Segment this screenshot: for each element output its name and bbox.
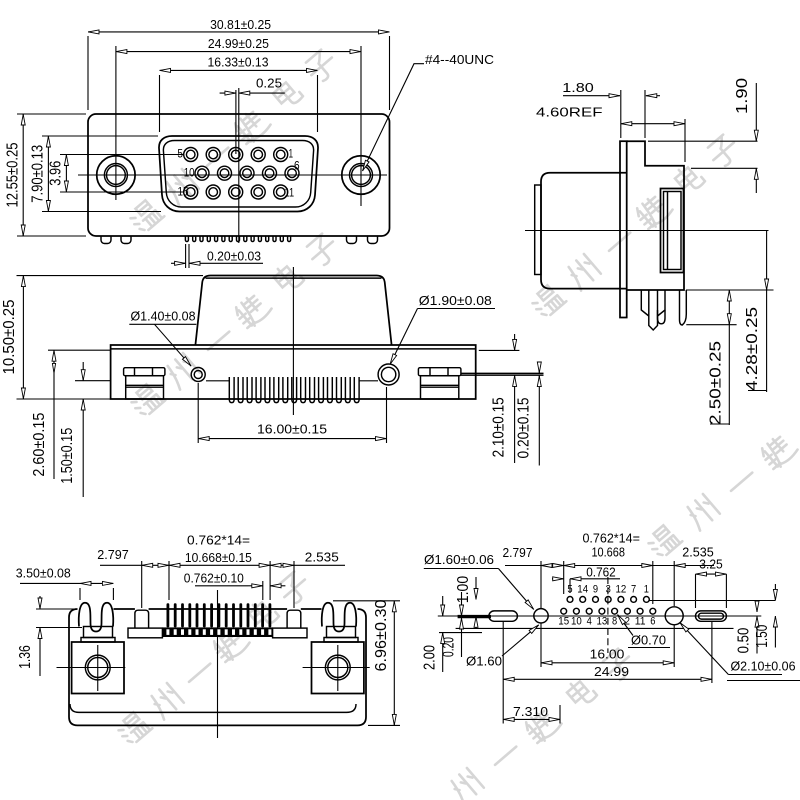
dim 1.36 (36, 608, 77, 610)
connector body outline (front) (88, 114, 390, 236)
svg-text:16.00±0.15: 16.00±0.15 (257, 422, 327, 437)
svg-text:1.50: 1.50 (754, 625, 771, 648)
mini dim 1.00 (475, 577, 477, 600)
svg-text:6.96±0.30: 6.96±0.30 (373, 599, 390, 671)
svg-text:#4--40UNC: #4--40UNC (425, 52, 494, 67)
watermark run B mid-left (128, 232, 341, 419)
svg-text:10.50±0.25: 10.50±0.25 (1, 299, 18, 374)
right solder pin (side) (680, 290, 687, 325)
svg-text:5: 5 (177, 147, 183, 161)
mini dim 0.50 right (756, 601, 758, 612)
left fork base (84, 627, 113, 638)
middle view pin comb (229, 377, 359, 403)
svg-text:4: 4 (587, 616, 592, 628)
dim 1.50±0.15 (82, 362, 84, 381)
right fork (board lock) (322, 603, 356, 632)
watermark run A top-right (529, 133, 742, 320)
hole center ext vlines (540, 561, 542, 608)
latch slot inner (664, 192, 682, 270)
svg-text:16.00: 16.00 (590, 647, 625, 662)
right slot (696, 611, 727, 621)
svg-text:Ø0.70: Ø0.70 (631, 633, 666, 648)
svg-text:2.50±0.25: 2.50±0.25 (708, 341, 725, 425)
middle view centerline vertical (292, 267, 294, 415)
watermark run D bottom-middle (447, 647, 637, 800)
svg-text:2.797: 2.797 (503, 545, 533, 560)
left post (135, 610, 149, 628)
dim 1.90 (755, 83, 757, 141)
dim 10.50±0.25 (22, 276, 24, 399)
mini dim 2.00 (442, 596, 444, 616)
left screw head (85, 655, 110, 680)
lower row labels 15 10 4 13 8 2 11 6 (558, 616, 655, 628)
svg-text:0.762*14=: 0.762*14= (187, 533, 250, 548)
svg-text:2.60±0.15: 2.60±0.15 (31, 413, 48, 477)
latch spring line (667, 192, 669, 270)
right post (287, 610, 301, 628)
svg-text:1.00: 1.00 (455, 576, 472, 604)
svg-text:4.28±0.25: 4.28±0.25 (744, 307, 761, 391)
bottom view centerline (217, 590, 219, 738)
svg-text:3.50±0.08: 3.50±0.08 (16, 566, 71, 581)
body top edge segments (114, 608, 135, 610)
shell trapezoid inner top line (206, 277, 382, 279)
left post base plate (128, 628, 162, 638)
svg-text:10.668±0.15: 10.668±0.15 (185, 550, 252, 565)
left mounting hole (97, 156, 135, 194)
dim 16.00±0.15 (198, 438, 386, 440)
pin row link lines (206, 380, 229, 382)
svg-text:0.762±0.10: 0.762±0.10 (184, 571, 244, 586)
left fork (board lock) (79, 603, 113, 632)
svg-text:3.96: 3.96 (48, 161, 65, 186)
svg-text:Ø1.60: Ø1.60 (466, 654, 502, 669)
dim 12.55±0.25 (22, 114, 24, 236)
mounting feet right (347, 236, 357, 244)
left mounting hole Ø1.60 (534, 609, 548, 623)
horizontal centerline front (78, 174, 387, 176)
svg-text:Ø1.60±0.06: Ø1.60±0.06 (424, 552, 494, 567)
dim 4.28±0.25 (766, 231, 768, 291)
svg-text:11: 11 (285, 186, 295, 200)
svg-text:2.535: 2.535 (305, 550, 339, 565)
dim 3.96 (65, 155, 67, 193)
svg-text:10: 10 (571, 616, 582, 628)
svg-text:6: 6 (650, 616, 655, 628)
shell barrel (side) (541, 173, 627, 289)
ext lines top (620, 90, 622, 138)
dim 24.99±0.25 (116, 51, 361, 53)
side centerline (525, 230, 769, 232)
svg-text:4.60REF: 4.60REF (536, 105, 603, 120)
left hole centerline vertical (115, 46, 117, 200)
svg-text:11: 11 (635, 616, 646, 628)
svg-text:0.20±0.03: 0.20±0.03 (207, 249, 261, 264)
svg-text:12: 12 (616, 584, 627, 596)
svg-text:7.310: 7.310 (513, 704, 548, 719)
right mounting hole (342, 156, 380, 194)
shell trapezoid (bottom view of shell) (195, 276, 391, 346)
svg-text:8: 8 (612, 616, 617, 628)
2.00 datum line (439, 632, 482, 634)
thick pin tail line left (458, 615, 491, 618)
dim row y=565.5 (505, 565, 541, 567)
dim 16.33±0.13 (160, 69, 318, 71)
MIDDLE VIEW (1, 267, 544, 497)
svg-text:Ø2.10±0.06: Ø2.10±0.06 (731, 659, 796, 674)
svg-text:24.99±0.25: 24.99±0.25 (208, 36, 269, 51)
dim 4.60REF (621, 123, 685, 125)
pin holes lower row (561, 608, 656, 614)
dim line row y=565.3 (100, 564, 142, 566)
ext line body bottom right (686, 289, 774, 291)
main body rectangle (middle view) (111, 345, 476, 399)
svg-text:2.797: 2.797 (97, 547, 129, 562)
right mounting hole Ø2.10 (665, 607, 683, 625)
solder pin comb under front body (185, 236, 290, 242)
dim 2.50±0.25 (728, 290, 730, 325)
svg-text:24.99: 24.99 (594, 664, 629, 679)
right hole centerline vertical (360, 46, 362, 206)
svg-text:7.90±0.13: 7.90±0.13 (30, 145, 47, 203)
svg-text:0.762*14=: 0.762*14= (582, 531, 640, 546)
svg-text:15: 15 (558, 616, 569, 628)
watermark run E right (645, 431, 799, 559)
dim 7.90±0.13 (47, 136, 49, 212)
body top second line (111, 348, 476, 350)
pin holes upper row (567, 597, 649, 603)
right rivet (418, 368, 461, 376)
dim 0.25 offset (235, 90, 237, 154)
svg-text:0.20±0.15: 0.20±0.15 (516, 397, 533, 458)
horizontal centerline (438, 615, 762, 617)
lower reference line (456, 627, 734, 629)
dim 6.96±0.30 (333, 600, 400, 602)
inner bottom step line (70, 704, 356, 712)
thick 0.20 reference lines (461, 372, 544, 374)
ext line boss top level (691, 167, 758, 169)
svg-text:6: 6 (294, 159, 300, 173)
mini dim 1.50 right (774, 584, 776, 600)
svg-text:13: 13 (597, 616, 608, 628)
D-shell inner (163, 141, 313, 208)
dim 2.10±0.15 (514, 334, 516, 350)
svg-text:3.25: 3.25 (699, 557, 723, 572)
FOOTPRINT VIEW (422, 531, 800, 724)
ext line 2.10 top right (479, 349, 520, 351)
ext line flange top level (648, 140, 758, 142)
pin comb dark band (163, 603, 273, 637)
flange plate (side) (620, 141, 627, 317)
svg-text:12.55±0.25: 12.55±0.25 (5, 142, 22, 207)
watermark run C bottom-left (115, 570, 313, 747)
right fork base (327, 627, 356, 638)
svg-text:10.668: 10.668 (591, 545, 625, 560)
D-shell outer (159, 136, 318, 212)
pin tip datum line (686, 324, 736, 326)
pin cluster (side) (641, 290, 649, 316)
svg-text:Ø1.40±0.08: Ø1.40±0.08 (131, 309, 196, 324)
pin15 / pin6 ext vlines (563, 561, 565, 594)
svg-text:16.33±0.13: 16.33±0.13 (208, 55, 269, 70)
svg-text:3: 3 (606, 584, 611, 596)
BOTTOM VIEW (16, 533, 400, 739)
svg-text:9: 9 (593, 584, 598, 596)
front rim plate (535, 185, 541, 275)
svg-text:2.00: 2.00 (422, 645, 439, 670)
svg-text:Ø1.90±0.08: Ø1.90±0.08 (419, 293, 492, 308)
svg-text:14: 14 (577, 584, 588, 596)
dim 0.20±0.15 (538, 362, 540, 373)
dim 1.80 (563, 95, 620, 97)
svg-text:1: 1 (644, 584, 649, 596)
right post base plate (273, 628, 307, 638)
left eyelet hole Ø1.40 (191, 368, 205, 382)
mounting feet left (101, 236, 111, 244)
edge line right (727, 680, 800, 682)
SIDE VIEW (525, 78, 774, 425)
svg-text:1.36: 1.36 (17, 645, 34, 669)
left rivet (124, 368, 165, 376)
vertical dashed centerline (607, 577, 609, 653)
left screw block (72, 642, 124, 694)
right screw block (312, 642, 364, 694)
watermark run F top-left (127, 48, 340, 235)
latch slot outer (661, 189, 684, 273)
15 contact pins front (184, 148, 299, 200)
svg-text:1.90: 1.90 (734, 78, 751, 114)
svg-text:7: 7 (631, 584, 636, 596)
upper row labels 5 14 9 3 12 7 1 (567, 584, 649, 596)
svg-text:1: 1 (289, 147, 294, 161)
svg-text:0.50: 0.50 (736, 628, 753, 654)
svg-text:1.50±0.15: 1.50±0.15 (59, 428, 76, 484)
ext lines for top dims (141, 561, 143, 608)
svg-text:2.10±0.15: 2.10±0.15 (491, 397, 508, 457)
dim 30.81±0.25 (88, 31, 390, 33)
left slot (489, 611, 518, 621)
svg-text:10: 10 (184, 166, 195, 180)
body top boss and right body outline (627, 141, 684, 290)
svg-text:0.762: 0.762 (586, 565, 616, 580)
FRONT VIEW (5, 17, 495, 268)
upper pin row reference line (650, 600, 776, 602)
dim 0.20±0.03 under comb (185, 244, 187, 268)
body outline (top view) (69, 609, 366, 725)
svg-text:1.80: 1.80 (562, 80, 594, 95)
svg-text:30.81±0.25: 30.81±0.25 (210, 17, 271, 32)
right eyelet hole Ø1.90 (378, 364, 399, 385)
svg-text:0.25: 0.25 (256, 76, 282, 91)
ext line for 1.50 top (75, 380, 110, 382)
dim 2.60±0.15 (53, 350, 55, 479)
ext line for 2.60 top (48, 349, 110, 351)
mini dim 0.20 (461, 592, 463, 616)
slot center ext vlines (502, 622, 504, 724)
right screw head (325, 655, 350, 680)
